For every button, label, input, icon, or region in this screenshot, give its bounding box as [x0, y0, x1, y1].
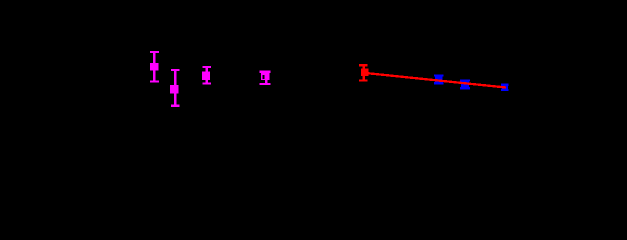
magenta data point 3 with error bar	[202, 66, 211, 85]
blue data point 2 with error bar	[460, 80, 470, 90]
magenta data point 1 with error bar	[150, 51, 159, 83]
blue data point 1 with error bar	[434, 75, 444, 85]
magenta data point 2 with error bar	[170, 69, 179, 107]
blue data point 3 with error bar	[501, 84, 509, 91]
red fit line	[365, 73, 506, 88]
red data point with error bar	[359, 64, 368, 82]
magenta data point 4 with error bar	[259, 71, 270, 86]
